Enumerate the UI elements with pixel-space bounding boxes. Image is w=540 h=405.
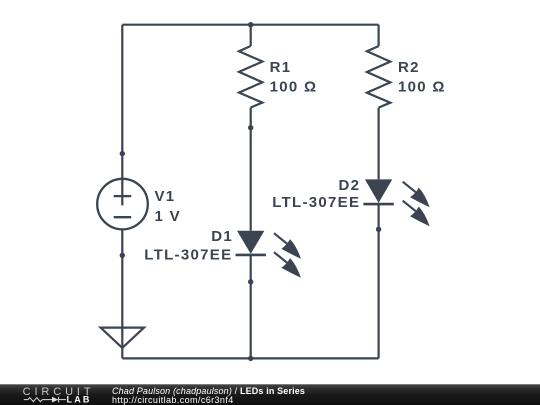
- wire top net: [122, 24, 378, 26]
- svg-text:R2: R2: [398, 59, 420, 76]
- footer line 1: author / title: [112, 387, 305, 396]
- node R1 top: [248, 22, 253, 27]
- node V1 top: [120, 151, 125, 156]
- resistor R2: [367, 46, 390, 108]
- wire R1 top lead: [250, 25, 252, 46]
- svg-text:LTL-307EE: LTL-307EE: [272, 194, 360, 211]
- node D1 bottom: [248, 279, 253, 284]
- footer watermark bar: [0, 384, 540, 405]
- ground: [101, 328, 144, 348]
- wire R2 top lead: [378, 25, 380, 46]
- node V1 bottom: [120, 253, 125, 258]
- wire V1 bottom to ground: [121, 229, 123, 358]
- wire R2 bottom to D2: [378, 108, 380, 180]
- node R1 bottom: [248, 125, 253, 130]
- wire D1 bottom: [250, 255, 252, 359]
- footer line 2: url: [112, 396, 234, 405]
- wire left vertical (top corner to V1 plus): [121, 25, 123, 206]
- node D2 bottom: [376, 227, 381, 232]
- svg-text:R1: R1: [270, 59, 292, 76]
- wire R1 bottom to D1: [250, 108, 252, 231]
- svg-text:D1: D1: [211, 228, 233, 245]
- LED D1: [236, 231, 301, 278]
- node bottom junction: [248, 356, 253, 361]
- svg-text:100 Ω: 100 Ω: [398, 79, 446, 96]
- svg-text:100 Ω: 100 Ω: [270, 79, 318, 96]
- svg-text:V1: V1: [155, 188, 176, 205]
- svg-text:D2: D2: [339, 177, 361, 194]
- LED D2: [363, 179, 429, 226]
- svg-text:LAB: LAB: [67, 395, 92, 405]
- svg-text:LTL-307EE: LTL-307EE: [144, 247, 232, 264]
- svg-text:1 V: 1 V: [155, 208, 181, 225]
- voltage source V1: [97, 179, 148, 230]
- wire D2 bottom: [378, 204, 380, 358]
- CircuitLab logo: [0, 384, 100, 405]
- wire bottom net: [122, 357, 378, 359]
- resistor R1: [239, 46, 262, 108]
